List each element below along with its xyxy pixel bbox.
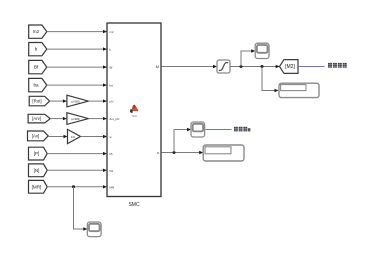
svg-text:[Av]: [Av] (32, 133, 39, 138)
gain G2 pi/180 (67, 113, 89, 125)
from tag [Av] (28, 131, 49, 141)
annotation line for sliding surface label (206, 129, 232, 131)
wire branch up to scope2 (174, 128, 191, 153)
wire SMC M output to saturation (162, 65, 217, 68)
scope1 (255, 43, 269, 58)
annotation text drive torque (328, 63, 347, 68)
wire m2 to SMC (47, 30, 107, 33)
wire branch down to display1 (262, 67, 279, 93)
svg-text:Pd: Pd (110, 169, 114, 173)
from tag ba (29, 78, 47, 91)
wire gain2 to SMC (88, 117, 107, 120)
wire [Av] to gain3 (48, 135, 67, 138)
display2 (203, 145, 244, 161)
from tag [Rot] (29, 96, 50, 106)
fcn icon (MATLAB function) (130, 105, 139, 119)
svg-text:[N]: [N] (34, 168, 40, 173)
wire ba to SMC (47, 83, 107, 86)
scope2 (191, 122, 205, 137)
saturation block (217, 60, 230, 73)
junction to scope1 branch (240, 65, 243, 68)
junction to display1 branch (261, 65, 264, 68)
wire [P] to SMC (47, 152, 107, 155)
svg-text:dot_phi: dot_phi (110, 117, 120, 121)
gain G1 pi/180 (67, 95, 89, 107)
svg-text:3.6: 3.6 (71, 135, 76, 139)
svg-text:ba: ba (33, 83, 39, 88)
svg-text:pi/180: pi/180 (71, 99, 80, 103)
wire saturation to goto M2 (230, 65, 280, 68)
svg-text:phi: phi (110, 100, 114, 104)
annotation line for M2 label (299, 66, 325, 68)
from tag m2 (29, 25, 47, 38)
from tag Bf (29, 60, 47, 73)
svg-text:[Rot]: [Rot] (32, 99, 41, 104)
svg-text:m2: m2 (33, 29, 40, 34)
wire branch up to scope1 (241, 49, 255, 66)
junction on MR wire (72, 185, 75, 188)
wire [Rot] to gain1 (50, 99, 67, 102)
svg-text:[M2]: [M2] (285, 64, 295, 70)
svg-text:[P]: [P] (34, 151, 40, 156)
from tag [Arv] (28, 114, 50, 123)
svg-text:b: b (35, 47, 38, 52)
wire [N] to SMC (47, 169, 107, 172)
svg-text:SMC: SMC (128, 202, 140, 208)
subsystem SMC (107, 23, 161, 208)
from tag b (29, 43, 47, 56)
goto tag [M2] (280, 60, 299, 74)
svg-text:[Arv]: [Arv] (32, 116, 41, 121)
from tag [MR] (29, 180, 48, 193)
from tag [P] (29, 147, 48, 160)
svg-text:s: s (157, 150, 159, 155)
svg-text:PL: PL (110, 152, 114, 156)
scope3 (87, 222, 101, 237)
wire [MR] to SMC (47, 185, 107, 188)
wire b to SMC (47, 47, 107, 50)
junction on s wire (173, 151, 176, 154)
svg-text:ba: ba (110, 84, 114, 88)
wire SMC s output to display2 (162, 151, 204, 154)
wire Bf to SMC (47, 65, 107, 68)
wire [Arv] to gain2 (50, 117, 67, 120)
gain G3 3.6 (68, 129, 81, 143)
svg-text:m2: m2 (110, 30, 114, 34)
wire gain3 to SMC (81, 135, 108, 138)
svg-text:Bf: Bf (34, 65, 39, 70)
svg-text:M: M (156, 64, 159, 69)
from tag [N] (29, 164, 48, 177)
svg-text:pi/180: pi/180 (71, 117, 80, 121)
svg-text:Bf: Bf (110, 66, 113, 70)
svg-text:fcn: fcn (132, 114, 136, 118)
display1 (279, 83, 319, 97)
annotation text sliding surface s (234, 127, 250, 132)
wire gain1 to SMC (88, 99, 107, 102)
svg-text:[MR]: [MR] (32, 184, 42, 189)
wire MR branch down to scope3 (74, 187, 88, 231)
